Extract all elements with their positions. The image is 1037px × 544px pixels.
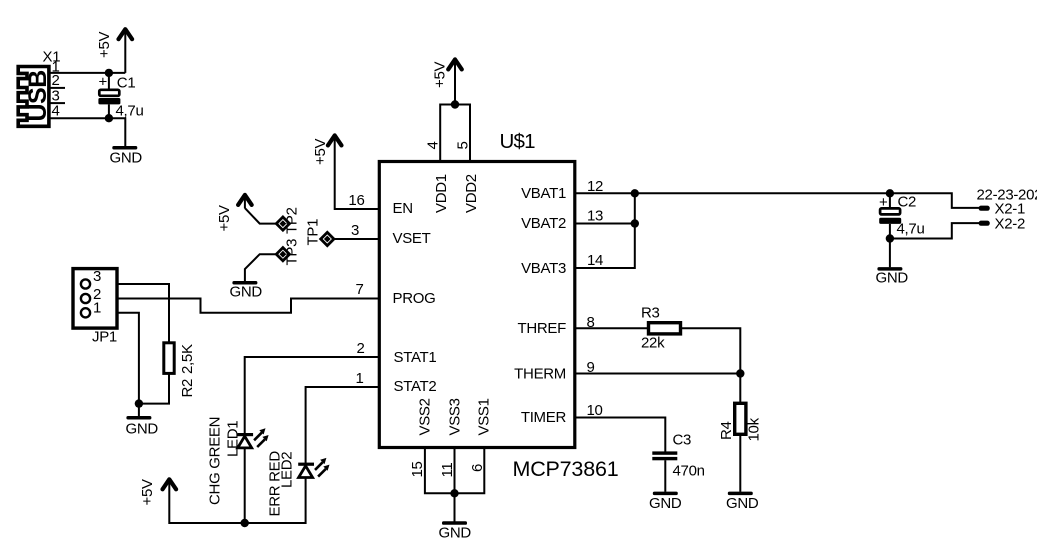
svg-text:TP3: TP3 (284, 239, 301, 266)
svg-text:1: 1 (355, 370, 363, 387)
resistor R3 (641, 305, 681, 352)
svg-text:GND: GND (110, 150, 143, 167)
svg-text:STAT1: STAT1 (394, 349, 437, 366)
svg-text:MCP73861: MCP73861 (513, 457, 619, 481)
svg-text:LED2: LED2 (279, 452, 296, 488)
svg-text:VSS3: VSS3 (447, 398, 464, 435)
svg-text:1: 1 (93, 300, 101, 317)
wire THERM (575, 373, 740, 375)
wire TP3 to ground (245, 254, 277, 281)
test point TP1 and wire to pin 3 (305, 219, 334, 246)
svg-text:4,7u: 4,7u (897, 221, 925, 238)
svg-text:U$1: U$1 (500, 130, 536, 153)
svg-text:GND: GND (649, 495, 682, 512)
LED LED2 (ERR RED) (267, 451, 330, 517)
svg-text:JP1: JP1 (92, 329, 117, 346)
ground (TP3) (230, 281, 263, 301)
connector X2 pads and labels (977, 187, 1037, 233)
capacitor C3 (652, 432, 704, 492)
wire VSS junction down (454, 493, 456, 521)
ground (X1) (110, 146, 143, 167)
ground (JP1/R2) (126, 416, 159, 438)
junction C2 top (886, 189, 894, 197)
wire C2 to ground (889, 239, 891, 268)
junction at C1 top (105, 69, 113, 77)
wire R4 to ground (739, 434, 741, 492)
LED LED1 (CHG GREEN) (207, 417, 269, 505)
junction VBAT2 (631, 219, 639, 227)
wire TIMER to C3 (575, 418, 665, 452)
svg-text:+5V: +5V (139, 479, 156, 506)
svg-text:+5V: +5V (312, 138, 329, 165)
svg-text:C2: C2 (898, 194, 917, 211)
wire junction to R4 (739, 374, 741, 404)
svg-text:THREF: THREF (518, 320, 567, 337)
svg-text:GND: GND (126, 421, 159, 438)
supply +5V (X1) (96, 29, 132, 73)
wire R3 to THERM junction (681, 328, 741, 373)
wire JP1.3 to R2 (117, 284, 169, 343)
svg-text:GND: GND (230, 284, 263, 301)
svg-text:3: 3 (93, 268, 101, 285)
junction VBAT1/VBAT2 bus top (631, 189, 639, 197)
svg-text:+: + (879, 194, 888, 211)
svg-text:C1: C1 (117, 75, 136, 92)
svg-text:VSS1: VSS1 (476, 398, 493, 435)
svg-text:STAT2: STAT2 (394, 378, 437, 395)
svg-text:TP1: TP1 (305, 219, 322, 246)
svg-text:TIMER: TIMER (521, 409, 567, 426)
svg-text:11: 11 (439, 463, 456, 478)
capacitor C1 (polarized) (98, 73, 143, 120)
svg-text:GND: GND (439, 525, 472, 542)
svg-text:VBAT2: VBAT2 (521, 215, 566, 232)
svg-text:5: 5 (455, 141, 472, 149)
svg-text:PROG: PROG (393, 290, 436, 307)
svg-text:X2-2: X2-2 (995, 216, 1026, 233)
svg-text:VBAT1: VBAT1 (521, 185, 566, 202)
wire VDD pins 4,5 to +5V (440, 105, 470, 162)
svg-text:+: + (99, 74, 108, 91)
wire VBAT3 (575, 193, 635, 268)
wire LED1 to +5V rail (244, 448, 246, 523)
svg-text:R3: R3 (641, 305, 660, 322)
wire X1 pin4 to ground (51, 118, 126, 147)
wire STAT2 to LED2 (306, 387, 379, 463)
junction (R2/JP1.1 ground) (135, 399, 143, 407)
resistor R4 (718, 403, 763, 441)
svg-text:C3: C3 (673, 432, 692, 449)
svg-text:VDD1: VDD1 (433, 174, 450, 213)
svg-text:+5V: +5V (216, 205, 233, 232)
supply +5V (TP2) (216, 195, 252, 232)
supply +5V (LED rail) (139, 479, 176, 506)
svg-text:CHG GREEN: CHG GREEN (207, 417, 224, 505)
junction VSS (450, 489, 458, 497)
svg-text:13: 13 (587, 208, 603, 225)
svg-text:15: 15 (409, 461, 426, 477)
junction at C1 bottom (105, 114, 113, 122)
svg-text:10k: 10k (746, 417, 763, 441)
ground (C3) (649, 492, 682, 512)
junction THERM/R4 (736, 369, 744, 377)
svg-text:4: 4 (425, 141, 442, 149)
svg-text:4: 4 (52, 103, 60, 120)
ground (C2) (876, 267, 909, 286)
wire X1 pin2 stub (51, 87, 66, 89)
junction VDD (451, 100, 459, 108)
wire JP1.1 to ground junction (117, 313, 139, 417)
supply +5V (VDD) (432, 59, 462, 104)
test point TP2 (276, 207, 300, 234)
svg-text:R4: R4 (718, 421, 735, 440)
wire JP1.2 to PROG (with jog) (117, 299, 379, 313)
svg-text:2: 2 (356, 340, 364, 357)
svg-text:R2: R2 (179, 379, 196, 398)
svg-text:GND: GND (876, 270, 909, 287)
svg-text:2,5K: 2,5K (179, 344, 196, 374)
svg-text:THERM: THERM (514, 366, 566, 383)
ground (VSS) (439, 521, 472, 541)
svg-text:22k: 22k (641, 335, 665, 352)
wire X1 pin3 stub (51, 102, 66, 104)
wire VSS pins 15,11,6 to ground (425, 448, 484, 494)
wire X1 pin1 to +5V (51, 72, 126, 74)
svg-text:EN: EN (393, 200, 413, 217)
junction (LED1 rail) (241, 519, 249, 527)
supply +5V (EN) and wire to pin 16 (312, 135, 379, 209)
junction C2 bottom (886, 234, 894, 242)
svg-text:14: 14 (587, 252, 603, 269)
svg-text:GND: GND (726, 495, 759, 512)
svg-text:470n: 470n (673, 463, 705, 480)
wire VBAT1 long run to X2-1 (575, 193, 979, 208)
test point TP3 (276, 239, 300, 266)
svg-text:VSET: VSET (393, 230, 431, 247)
capacitor C2 (polarized) (879, 193, 925, 238)
svg-text:7: 7 (355, 281, 363, 298)
resistor R2 (164, 343, 196, 398)
wire R2 to ground junction (139, 373, 169, 403)
ground (R4) (726, 492, 759, 512)
svg-text:3: 3 (351, 222, 359, 239)
svg-text:USB: USB (24, 70, 52, 121)
wire STAT1 to LED1 (245, 357, 379, 434)
wire LED2 to +5V rail (169, 478, 305, 524)
wire +5V to TP2 (245, 208, 277, 224)
wire VSS3 (454, 448, 456, 494)
svg-text:2: 2 (52, 72, 60, 89)
svg-text:VBAT3: VBAT3 (521, 260, 566, 277)
svg-text:LED1: LED1 (225, 421, 242, 457)
IC U$1 MCP73861 (348, 130, 618, 481)
connector X1 (USB) (18, 49, 60, 127)
svg-text:+5V: +5V (96, 31, 113, 58)
svg-text:4,7u: 4,7u (116, 103, 144, 120)
svg-text:VDD2: VDD2 (463, 174, 480, 213)
connector JP1 (73, 268, 117, 346)
svg-text:TP2: TP2 (284, 207, 301, 234)
wire THREF to R3 (575, 327, 649, 329)
wire C2 junction to X2-2 (890, 223, 979, 238)
svg-text:10: 10 (587, 402, 603, 419)
wire TP1 to VSET (334, 238, 379, 240)
wire VBAT2 (575, 223, 635, 225)
svg-text:VSS2: VSS2 (417, 398, 434, 435)
svg-text:16: 16 (348, 192, 364, 209)
svg-text:+5V: +5V (432, 61, 449, 88)
